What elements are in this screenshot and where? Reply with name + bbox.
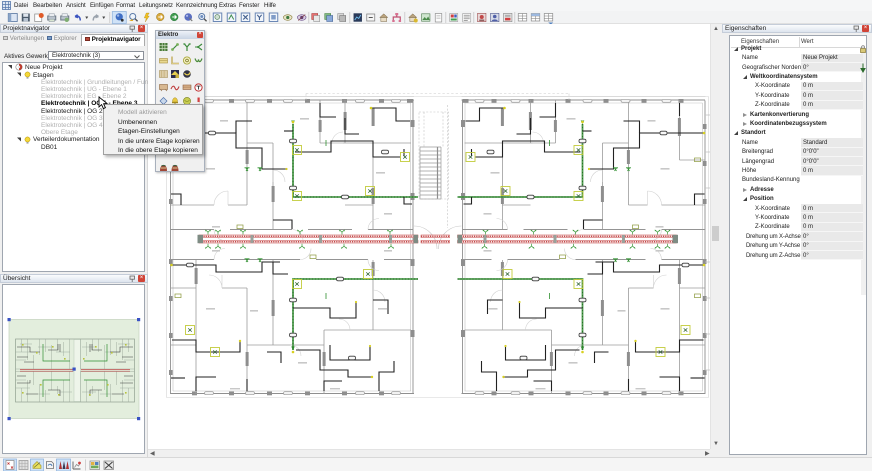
menu bar bbox=[0, 0, 872, 11]
stair dashed outline bbox=[419, 105, 449, 228]
balcony stubs right bbox=[705, 115, 712, 370]
stair rail bbox=[437, 147, 439, 199]
canvas bbox=[148, 24, 710, 449]
elektro palette bbox=[155, 30, 205, 172]
context menu bbox=[103, 104, 203, 155]
mini device dots bbox=[22, 344, 127, 396]
vertical scrollbar bbox=[710, 24, 719, 449]
rows bbox=[730, 44, 866, 53]
stair treads bbox=[420, 147, 441, 199]
horizontal scrollbar bbox=[148, 449, 710, 457]
mini wires bbox=[17, 344, 133, 396]
right half wiring (mirrored) bbox=[458, 103, 706, 391]
left half wiring bbox=[170, 103, 418, 391]
center stairwell bbox=[167, 94, 713, 398]
mini ring circuits bbox=[43, 344, 107, 397]
right panel bbox=[722, 24, 872, 457]
center tray piece bbox=[421, 235, 450, 238]
entrance door arcs bbox=[414, 226, 462, 249]
selection handles bbox=[8, 318, 141, 420]
overview viewport frame bbox=[9, 320, 139, 419]
roof outline bbox=[167, 97, 709, 398]
mini room grid bbox=[16, 339, 135, 402]
building left half walls bbox=[169, 97, 415, 396]
mini building outline bbox=[16, 339, 135, 402]
balcony dashes above bbox=[306, 94, 569, 101]
left panel bbox=[0, 24, 148, 457]
mini cable tray bbox=[20, 370, 130, 372]
status bar bbox=[0, 457, 872, 471]
toolbar bbox=[0, 11, 872, 24]
building right half walls (mirrored) bbox=[461, 97, 707, 396]
